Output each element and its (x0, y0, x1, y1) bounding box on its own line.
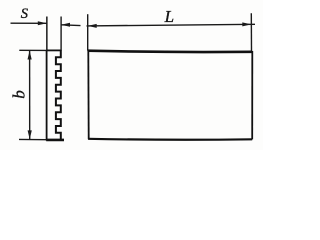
arrowhead L right (242, 22, 251, 26)
svg-text:b: b (9, 90, 28, 99)
arrowhead b top (28, 51, 32, 60)
extension line L left (87, 14, 89, 50)
dimension line L (87, 24, 256, 26)
blade side-view: top edge (thick) (88, 51, 253, 52)
blade edge-view: serrated right edge (56, 50, 61, 140)
dimension line S right (61, 24, 80, 27)
dimension line b (29, 51, 31, 140)
extension line S left (46, 17, 48, 51)
blade edge-view: left edge (46, 50, 48, 140)
extension line L right (250, 13, 252, 51)
arrowhead S left (38, 21, 47, 25)
blade edge-view: top edge (47, 49, 61, 51)
arrowhead S right (61, 23, 70, 27)
svg-text:L: L (164, 7, 174, 26)
extension line b top (19, 49, 46, 51)
dimension line S left (11, 22, 47, 24)
extension line S right (60, 17, 62, 51)
blade side-view: right edge (251, 51, 253, 139)
extension line b bottom (19, 138, 46, 140)
svg-text:S: S (21, 6, 29, 22)
arrowhead L left (88, 24, 97, 28)
blade edge-view: bottom edge (46, 139, 64, 142)
blade side-view: bottom edge (88, 138, 252, 141)
arrowhead b bottom (28, 130, 32, 139)
blade side-view: left edge (87, 51, 89, 140)
